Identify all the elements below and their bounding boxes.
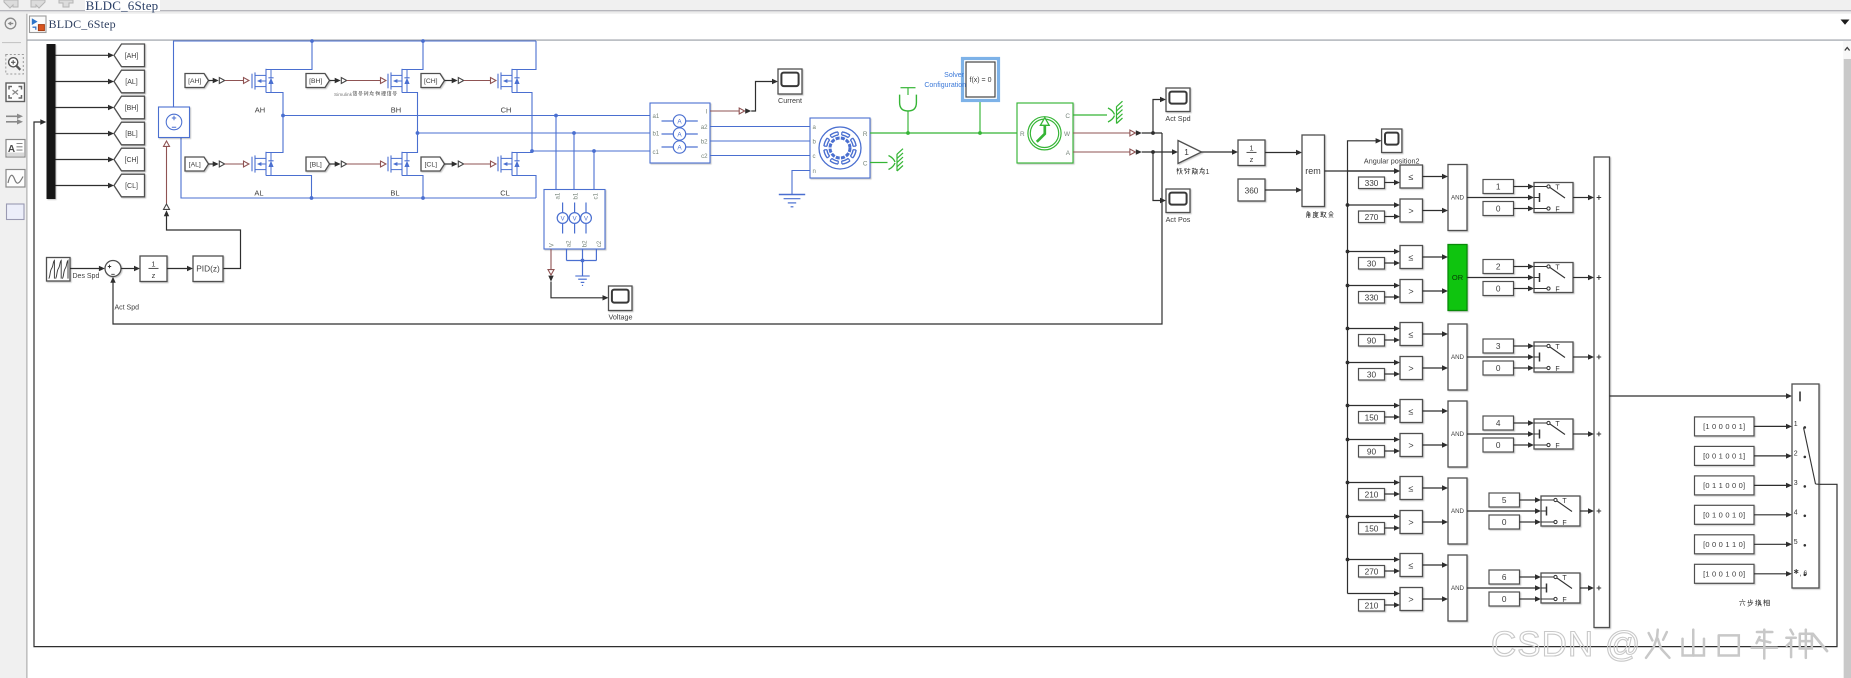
wire LE to logic row4 bbox=[1423, 410, 1443, 412]
svg-text:>: > bbox=[1408, 517, 1413, 527]
constant 4 (row4 true value) bbox=[1483, 416, 1514, 430]
logical AND block row1 bbox=[1448, 165, 1467, 231]
relational operator LE row3 bbox=[1400, 323, 1423, 346]
svg-text:c1: c1 bbox=[653, 149, 660, 156]
toolbar up-arrow icon bbox=[59, 0, 73, 7]
wire voltage sensor a2b2c2 to reference bbox=[566, 249, 568, 261]
MOSFET AH (high side) bbox=[251, 74, 253, 89]
constant 6 (row6 true value) bbox=[1489, 570, 1520, 584]
wire constant to LE row3 bbox=[1385, 339, 1395, 341]
toolbar back-arrow icon bbox=[4, 0, 18, 8]
node angle bus row2 upper bbox=[1346, 250, 1350, 254]
wire gate-pattern constant 5 to multiport bbox=[1754, 543, 1786, 545]
svg-text:5: 5 bbox=[1794, 539, 1798, 546]
svg-text:CSDN @: CSDN @ bbox=[1491, 625, 1641, 664]
wire GT to logic row6 bbox=[1423, 598, 1443, 600]
svg-text:≤: ≤ bbox=[1409, 329, 1414, 339]
node clamp junction bbox=[906, 131, 910, 135]
svg-text:[AH]: [AH] bbox=[125, 53, 139, 60]
wire zero constant to switch row3 bbox=[1514, 367, 1529, 369]
sum block (speed error) bbox=[105, 261, 121, 277]
gate chain [CL] (Simulink-PS converter) bbox=[445, 163, 453, 165]
scope Act Spd bbox=[1166, 88, 1190, 112]
svg-text:AL: AL bbox=[254, 189, 263, 198]
svg-text:AND: AND bbox=[1451, 508, 1465, 515]
svg-text:V: V bbox=[573, 216, 577, 222]
wire demux to goto [AH] bbox=[56, 54, 109, 56]
constant 0 (row4 false value) bbox=[1483, 438, 1514, 452]
wire position to Act Pos scope bbox=[1153, 152, 1161, 201]
svg-text:4: 4 bbox=[1496, 418, 1501, 428]
svg-text:Act Pos: Act Pos bbox=[1166, 215, 1191, 224]
wire angle to LE row3 bbox=[1348, 328, 1395, 330]
svg-text:1: 1 bbox=[1184, 147, 1189, 157]
wire zero constant to switch row5 bbox=[1520, 521, 1536, 523]
node phase C bbox=[530, 149, 534, 153]
constant 3 (row3 true value) bbox=[1483, 339, 1514, 353]
constant 5 (row5 true value) bbox=[1489, 493, 1520, 507]
constant [0 0 0 1 1 0] bbox=[1695, 535, 1755, 554]
svg-text:z: z bbox=[1250, 155, 1254, 164]
voltage output chain (PS-Simulink converter) bbox=[550, 249, 552, 269]
svg-text:150: 150 bbox=[1365, 413, 1379, 423]
node angle bus row5 upper bbox=[1346, 481, 1350, 485]
wire I to Current scope bbox=[751, 82, 772, 112]
svg-text:0: 0 bbox=[1496, 284, 1501, 294]
goto tag [CH] bbox=[114, 148, 145, 171]
wire GT to logic row1 bbox=[1423, 210, 1443, 212]
svg-text:4: 4 bbox=[1794, 509, 1798, 516]
constant 90 (row3 upper threshold) bbox=[1359, 335, 1385, 347]
sum input plus mark row6 bbox=[1597, 587, 1602, 589]
svg-text:I: I bbox=[706, 109, 708, 116]
wire LE to logic row3 bbox=[1423, 333, 1443, 335]
wire LE to logic row6 bbox=[1423, 564, 1443, 566]
relational operator GT row4 bbox=[1400, 434, 1423, 457]
wire sum to multiport switch control bbox=[1610, 395, 1787, 397]
wire phase node C to CL drain bbox=[512, 151, 532, 153]
svg-text:AND: AND bbox=[1451, 431, 1465, 438]
svg-text:360: 360 bbox=[1245, 185, 1259, 195]
wire AH source to phase node A bbox=[266, 93, 283, 116]
wire constant to LE row4 bbox=[1385, 416, 1395, 418]
svg-text:AND: AND bbox=[1451, 195, 1465, 202]
svg-text:[1 0 0 1 0 0]: [1 0 0 1 0 0] bbox=[1703, 569, 1745, 578]
wire switch to sum row5 bbox=[1580, 510, 1588, 512]
from tag [AL] bbox=[185, 157, 209, 171]
wire PID output to source control bbox=[167, 216, 241, 269]
svg-text:R: R bbox=[1020, 131, 1025, 138]
gate chain [BH] (Simulink-PS converter) bbox=[330, 80, 336, 82]
wire demux to goto [CL] bbox=[56, 185, 109, 187]
svg-text:a1: a1 bbox=[554, 192, 561, 199]
wire V to Voltage scope bbox=[551, 282, 603, 298]
rotational reference (motor case) bbox=[889, 156, 896, 163]
wire unit delay to rem bbox=[1265, 152, 1296, 154]
BLDC motor block bbox=[810, 118, 870, 178]
wire value constant to switch row4 bbox=[1514, 422, 1529, 424]
from tag [BL] bbox=[306, 157, 330, 171]
scope Voltage bbox=[609, 286, 633, 311]
palette right border bbox=[26, 14, 28, 678]
wire demux to goto [BH] bbox=[56, 107, 109, 109]
wire constant to GT row4 bbox=[1385, 450, 1395, 452]
wire value constant to switch row6 bbox=[1520, 576, 1536, 578]
model icon box bbox=[30, 16, 47, 33]
svg-text:>: > bbox=[1408, 363, 1413, 373]
wire unit delay to PID bbox=[167, 268, 187, 270]
wire 360 to rem bbox=[1265, 189, 1296, 191]
gate chain [AH] (Simulink-PS converter) bbox=[209, 80, 214, 82]
wire switch to sum row6 bbox=[1580, 587, 1588, 589]
svg-text:T: T bbox=[1555, 185, 1560, 192]
svg-text:BLDC_6Step: BLDC_6Step bbox=[86, 0, 159, 13]
constant 360 bbox=[1238, 179, 1265, 201]
wire sensor C to rotational reference bbox=[1073, 114, 1107, 116]
constant [0 1 1 0 0 0] bbox=[1695, 476, 1755, 495]
solver configuration selection highlight bbox=[963, 59, 999, 101]
wire phase C to current sensor c1 bbox=[532, 150, 650, 152]
wire AL source to bottom bus bbox=[266, 176, 312, 199]
node phase B bbox=[416, 131, 420, 135]
wire AH drain to top bus bbox=[266, 41, 312, 70]
MOSFET BH (high side) bbox=[387, 74, 389, 89]
svg-text:Current: Current bbox=[778, 96, 802, 105]
svg-text:270: 270 bbox=[1365, 212, 1379, 222]
wire logic to switch row5 bbox=[1467, 510, 1535, 512]
constant 0 (row1 false value) bbox=[1483, 202, 1514, 216]
wire GT to logic row2 bbox=[1423, 290, 1443, 292]
wire LE to logic row1 bbox=[1423, 176, 1443, 178]
sum input plus mark row4 bbox=[1597, 433, 1602, 435]
signal generator Des Spd bbox=[47, 258, 71, 282]
svg-text:F: F bbox=[1562, 597, 1566, 604]
gate chain [BL] (Simulink-PS converter) bbox=[330, 163, 336, 165]
wire angle to LE row2 bbox=[1348, 251, 1395, 253]
svg-text:[BH]: [BH] bbox=[309, 78, 322, 85]
node angle bus row6 upper bbox=[1346, 558, 1350, 562]
svg-text:V: V bbox=[561, 216, 565, 222]
rem block (angle modulo) bbox=[1302, 135, 1325, 207]
wire gate-pattern constant 6 to multiport bbox=[1754, 573, 1786, 575]
svg-text:T: T bbox=[1562, 575, 1567, 582]
svg-text:Angular position2: Angular position2 bbox=[1364, 157, 1420, 166]
node angle bus row1 lower bbox=[1346, 203, 1350, 207]
constant 0 (row5 false value) bbox=[1489, 515, 1520, 529]
from tag [CL] bbox=[421, 157, 445, 171]
svg-text:3: 3 bbox=[1496, 341, 1501, 351]
svg-text:OR: OR bbox=[1452, 273, 1464, 282]
svg-text:W: W bbox=[1064, 131, 1071, 138]
wire speed feedback (to speed error sum) bbox=[113, 133, 1162, 324]
wire constant to GT row1 bbox=[1385, 216, 1395, 218]
node angle bus row2 lower bbox=[1346, 284, 1350, 288]
node angle bus row3 upper bbox=[1346, 327, 1350, 331]
relational operator GT row1 bbox=[1400, 199, 1423, 222]
switch block row3 bbox=[1534, 342, 1573, 372]
wire angle to scope bbox=[1348, 141, 1377, 171]
scrollbar track bbox=[1843, 41, 1851, 678]
switch block row5 bbox=[1541, 496, 1580, 526]
svg-text:c2: c2 bbox=[596, 240, 603, 247]
svg-text:AH: AH bbox=[255, 106, 265, 115]
wire constant to GT row6 bbox=[1385, 604, 1395, 606]
svg-text:Solver: Solver bbox=[944, 72, 965, 79]
node voltage tap c bbox=[592, 149, 596, 153]
wire angle to GT row5 bbox=[1348, 516, 1395, 518]
relational operator GT row5 bbox=[1400, 511, 1423, 534]
svg-text:90: 90 bbox=[1367, 447, 1377, 457]
wire motor C to rotational reference bbox=[870, 162, 888, 164]
svg-text:330: 330 bbox=[1365, 178, 1379, 188]
palette signal-arrows icon bbox=[6, 115, 20, 117]
svg-text:T: T bbox=[1555, 344, 1560, 351]
wire zero constant to switch row1 bbox=[1514, 208, 1529, 210]
active tab BLDC_6Step bbox=[85, 0, 160, 11]
scrollbar top button bbox=[1843, 41, 1851, 59]
wire speed to junction bbox=[1142, 132, 1162, 134]
node solver junction bbox=[978, 131, 982, 135]
label six-step commutation (chinese) bbox=[1741, 599, 1744, 600]
svg-text:F: F bbox=[1555, 287, 1559, 294]
svg-text:30: 30 bbox=[1367, 259, 1377, 269]
from tag [BH] bbox=[306, 74, 330, 88]
goto tag [BH] bbox=[114, 96, 145, 119]
breadcrumb bar bbox=[27, 14, 1851, 40]
wire phase B to current sensor b1 bbox=[418, 132, 651, 134]
svg-text:≤: ≤ bbox=[1409, 560, 1414, 570]
svg-text:F: F bbox=[1555, 207, 1559, 214]
node angle bus row3 lower bbox=[1346, 361, 1350, 365]
scope Angular position2 bbox=[1382, 129, 1402, 153]
wire BH drain to top bus bbox=[402, 41, 423, 70]
wire Des Spd to sum bbox=[70, 268, 99, 270]
wire value constant to switch row3 bbox=[1514, 345, 1529, 347]
wire logic to switch row6 bbox=[1467, 587, 1535, 589]
node voltage tap b bbox=[572, 131, 576, 135]
svg-text:, 6: , 6 bbox=[1800, 570, 1808, 577]
palette image icon bbox=[6, 170, 25, 188]
constant 330 (row1 upper threshold) bbox=[1359, 177, 1385, 189]
unit delay block 1/z (position) bbox=[1238, 140, 1265, 166]
svg-text:[0 0 0 1 1 0]: [0 0 0 1 1 0] bbox=[1703, 540, 1745, 549]
constant 30 (row2 upper threshold) bbox=[1359, 258, 1385, 270]
wire value constant to switch row1 bbox=[1514, 186, 1529, 188]
model icon blue arrow bbox=[32, 18, 38, 25]
scrollbar thumb bbox=[1844, 59, 1851, 678]
wire solver configuration to network bbox=[979, 101, 981, 134]
wire switch to sum row2 bbox=[1573, 277, 1588, 279]
svg-text:[BL]: [BL] bbox=[125, 131, 138, 138]
svg-text:0: 0 bbox=[1502, 594, 1507, 604]
relational operator LE row5 bbox=[1400, 477, 1423, 500]
node angle bus row5 lower bbox=[1346, 515, 1350, 519]
ideal rotational motion sensor block bbox=[1017, 103, 1073, 163]
constant 30 (row3 lower threshold) bbox=[1359, 369, 1385, 381]
svg-text:AND: AND bbox=[1451, 585, 1465, 592]
wire phase node B to BL drain bbox=[402, 133, 418, 153]
wire angle to LE row6 bbox=[1348, 559, 1395, 561]
constant 1 (row1 true value) bbox=[1483, 180, 1514, 194]
svg-text:30: 30 bbox=[1367, 370, 1377, 380]
gain block (pole pairs = 1) bbox=[1178, 141, 1202, 164]
svg-text:A: A bbox=[1066, 150, 1071, 157]
svg-text:b2: b2 bbox=[581, 240, 588, 247]
model icon orange box bbox=[38, 25, 44, 31]
current sensor block (three-phase) bbox=[650, 103, 710, 163]
wire demux to goto [AL] bbox=[56, 81, 109, 83]
constant 270 (row6 upper threshold) bbox=[1359, 566, 1385, 578]
switch block row2 bbox=[1534, 263, 1573, 293]
wire value constant to switch row5 bbox=[1520, 499, 1536, 501]
svg-text:a1: a1 bbox=[653, 113, 660, 120]
wire LE to logic row5 bbox=[1423, 487, 1443, 489]
node top bus / BH drain bbox=[421, 39, 425, 43]
node bottom bus / AL source bbox=[310, 196, 314, 200]
svg-text:1: 1 bbox=[151, 259, 155, 268]
svg-text:BH: BH bbox=[391, 106, 401, 115]
svg-text:AND: AND bbox=[1451, 354, 1465, 361]
wire GT to logic row4 bbox=[1423, 444, 1443, 446]
tab row line bbox=[0, 10, 1851, 12]
wire constant to GT row5 bbox=[1385, 527, 1395, 529]
svg-text:210: 210 bbox=[1365, 490, 1379, 500]
svg-text:90: 90 bbox=[1367, 336, 1377, 346]
MOSFET CL (low side) bbox=[497, 157, 499, 172]
label angle-remainder (chinese) bbox=[1306, 211, 1309, 212]
wire phase node A to AL drain bbox=[266, 116, 283, 153]
breadcrumb back circle icon bbox=[5, 18, 16, 29]
electrical ground (voltage sensor) bbox=[575, 275, 589, 277]
MOSFET BL (low side) bbox=[387, 157, 389, 172]
svg-text:T: T bbox=[1562, 498, 1567, 505]
switch block row6 bbox=[1541, 573, 1580, 603]
svg-text:R: R bbox=[863, 131, 868, 138]
svg-text:≤: ≤ bbox=[1409, 172, 1414, 182]
svg-text:a2: a2 bbox=[701, 124, 708, 131]
svg-text:5: 5 bbox=[1502, 495, 1507, 505]
svg-text:[AH]: [AH] bbox=[188, 78, 201, 85]
svg-text:c2: c2 bbox=[701, 153, 708, 160]
palette zoom icon bbox=[6, 55, 24, 75]
wire LE to logic row2 bbox=[1423, 256, 1443, 258]
wire phase A to current sensor a1 bbox=[283, 115, 650, 117]
svg-text:[CL]: [CL] bbox=[425, 162, 438, 169]
node angle bus row4 upper bbox=[1346, 404, 1350, 408]
svg-text:a2: a2 bbox=[565, 240, 572, 247]
svg-text:270: 270 bbox=[1365, 567, 1379, 577]
svg-text:BLDC_6Step: BLDC_6Step bbox=[49, 17, 116, 31]
goto tag [AL] bbox=[114, 70, 145, 93]
node bottom bus / BL source bbox=[421, 196, 425, 200]
constant 2 (row2 true value) bbox=[1483, 260, 1514, 274]
svg-text:3: 3 bbox=[1794, 480, 1798, 487]
svg-text:[0 1 0 0 1 0]: [0 1 0 0 1 0] bbox=[1703, 510, 1745, 519]
node angle bus row4 lower bbox=[1346, 438, 1350, 442]
wire GT to logic row3 bbox=[1423, 367, 1443, 369]
rotational reference (sensor case) bbox=[1108, 108, 1115, 115]
solver configuration block bbox=[966, 62, 995, 97]
label pole-pairs gain (chinese) bbox=[1177, 168, 1179, 174]
svg-text:C: C bbox=[1065, 113, 1070, 120]
position output chain (PS-Simulink converter) bbox=[1073, 151, 1130, 153]
logical OR block row2 (selected, green) bbox=[1448, 245, 1467, 311]
sum input plus mark row3 bbox=[1597, 356, 1602, 358]
svg-text:330: 330 bbox=[1365, 293, 1379, 303]
svg-text:>: > bbox=[1408, 594, 1413, 604]
wire motor R to rotation sensor bbox=[870, 132, 1017, 134]
logical AND block row5 bbox=[1448, 478, 1467, 544]
svg-text:2: 2 bbox=[1794, 450, 1798, 457]
gate chain [CH] (Simulink-PS converter) bbox=[445, 80, 453, 82]
svg-text:≤: ≤ bbox=[1409, 483, 1414, 493]
svg-text:Act Spd: Act Spd bbox=[1165, 114, 1190, 123]
breadcrumb dropdown triangle bbox=[1841, 20, 1850, 25]
wire logic to switch row3 bbox=[1467, 356, 1528, 358]
wire tap a to voltage sensor bbox=[555, 116, 557, 190]
wire BL source to bottom bus bbox=[402, 176, 423, 199]
wire angle bus corner row6 bbox=[1347, 593, 1349, 595]
svg-text:2: 2 bbox=[1496, 262, 1501, 272]
constant 270 (row1 lower threshold) bbox=[1359, 211, 1385, 223]
svg-text:F: F bbox=[1562, 520, 1566, 527]
constant 0 (row2 false value) bbox=[1483, 282, 1514, 296]
constant [1 0 0 1 0 0] bbox=[1695, 564, 1755, 583]
wire logic to switch row2 bbox=[1467, 277, 1528, 279]
relational operator GT row3 bbox=[1400, 357, 1423, 380]
svg-text:CL: CL bbox=[500, 189, 510, 198]
svg-text:>: > bbox=[1408, 286, 1413, 296]
constant 150 (row5 lower threshold) bbox=[1359, 523, 1385, 535]
MOSFET AL (low side) bbox=[251, 157, 253, 172]
svg-text:Des Spd: Des Spd bbox=[73, 273, 100, 280]
svg-text:b1: b1 bbox=[653, 131, 660, 138]
wire switch to sum row1 bbox=[1573, 197, 1588, 199]
wire logic to switch row1 bbox=[1467, 197, 1528, 199]
node speed junction bbox=[1151, 131, 1155, 135]
svg-text:T: T bbox=[1555, 265, 1560, 272]
wire gate-pattern constant 3 to multiport bbox=[1754, 484, 1786, 486]
svg-text:A: A bbox=[8, 144, 15, 155]
svg-text:b1: b1 bbox=[572, 192, 579, 199]
svg-text:C: C bbox=[863, 160, 868, 167]
electrical ground (motor neutral) bbox=[779, 194, 805, 196]
relational operator LE row4 bbox=[1400, 400, 1423, 423]
wire b2 to motor b bbox=[710, 140, 810, 142]
wire BH source to phase node B bbox=[402, 93, 418, 134]
svg-text:0: 0 bbox=[1496, 363, 1501, 373]
goto tag [CL] bbox=[114, 174, 145, 197]
wire CH drain to top bus bbox=[512, 41, 536, 70]
wire constant to GT row2 bbox=[1385, 296, 1395, 298]
wire logic to switch row4 bbox=[1467, 433, 1528, 435]
relational operator GT row2 bbox=[1400, 280, 1423, 303]
svg-text:[1 0 0 0 0 1]: [1 0 0 0 0 1] bbox=[1703, 422, 1745, 431]
wire angle to LE row4 bbox=[1348, 405, 1395, 407]
wire c2 to motor c bbox=[710, 155, 810, 157]
svg-text:Act Spd: Act Spd bbox=[115, 305, 140, 312]
scope Act Pos bbox=[1166, 189, 1190, 213]
logical AND block row3 bbox=[1448, 324, 1467, 390]
scope Current bbox=[778, 69, 802, 94]
svg-text:≤: ≤ bbox=[1409, 252, 1414, 262]
wire rem output to comparators bbox=[1325, 170, 1395, 172]
svg-text:>: > bbox=[1408, 206, 1413, 216]
sum input plus mark row1 bbox=[1597, 197, 1602, 199]
wire demux to goto [CH] bbox=[56, 159, 109, 161]
MOSFET CH (high side) bbox=[497, 74, 499, 89]
breadcrumb bottom border bbox=[27, 39, 1851, 41]
